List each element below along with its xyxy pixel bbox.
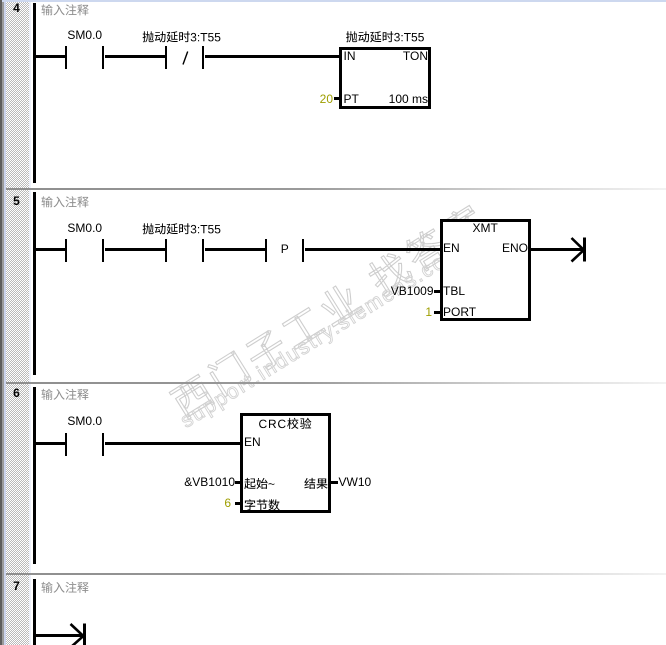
pin label ENO	[502, 242, 528, 254]
type label TON	[403, 50, 428, 62]
PT value 20	[320, 93, 333, 105]
contact SM0.0 bars	[65, 46, 68, 69]
left window border	[0, 0, 2, 645]
contact T55 NC bars	[165, 46, 168, 69]
pin label TBL	[443, 285, 465, 297]
wire: rail stub (network 7)	[36, 634, 83, 637]
PT pin tick	[334, 97, 340, 100]
TBL pin tick	[434, 290, 440, 293]
left power rail network 4	[33, 3, 36, 183]
operand VB1009	[391, 285, 434, 297]
box title XMT	[473, 222, 498, 234]
network separator 4/5	[6, 188, 666, 190]
edge contact bars	[265, 239, 268, 262]
watermark: diagonal site watermark 西门子工业 找答案	[160, 64, 666, 429]
wire: NC contact to TON box	[205, 55, 340, 58]
byte count value 6	[224, 497, 231, 509]
wire	[205, 248, 265, 251]
network number 6	[13, 387, 20, 399]
network number 7	[13, 580, 20, 592]
label SM0.0	[67, 29, 102, 41]
instruction box CRC校验	[240, 413, 331, 513]
pin label PT	[344, 93, 359, 105]
pin label EN	[244, 436, 261, 448]
instruction box XMT	[440, 219, 532, 321]
wire: ENO to open arrow	[531, 248, 584, 251]
input pin tick	[235, 481, 241, 484]
edge contact letter P	[281, 243, 289, 255]
wire: SM0.0 to CRC box	[105, 442, 241, 445]
wire	[105, 248, 165, 251]
pin label IN	[344, 50, 356, 62]
wire: P contact to XMT box	[305, 248, 440, 251]
PORT value 1	[425, 306, 432, 318]
network number 5	[13, 195, 20, 207]
byte-count pin tick	[235, 502, 241, 505]
wire: SM0.0 to T55 contact	[105, 55, 165, 58]
pin label EN	[443, 242, 460, 254]
operand &VB1010	[184, 476, 235, 488]
wire: rail to SM0.0 (network 6)	[36, 442, 65, 445]
network separator 5/6	[6, 382, 666, 384]
left power rail network 6	[33, 387, 36, 564]
label SM0.0	[67, 415, 102, 427]
timer box T55 TON	[339, 47, 431, 109]
contact SM0.0 bars	[65, 239, 68, 262]
contact SM0.0 bars	[65, 433, 68, 456]
left power rail network 5	[33, 192, 36, 375]
network-number gutter (dithered)	[6, 0, 29, 645]
pin label PORT	[443, 306, 476, 318]
wire: rail to SM0.0 (network 5)	[36, 248, 65, 251]
PORT pin tick	[434, 311, 440, 314]
time base label 100 ms	[389, 93, 428, 105]
network separator 6/7	[6, 573, 666, 575]
left power rail network 7	[33, 579, 36, 645]
watermark: diagonal site URL support.industry.siemens.com/cs	[177, 96, 666, 433]
network number 4	[13, 2, 20, 14]
top edge highlight	[2, 0, 666, 2]
wire: rail to contact SM0.0 (network 4)	[36, 55, 65, 58]
label SM0.0	[67, 222, 102, 234]
contact T55 bars	[165, 239, 168, 262]
operand VW10	[339, 476, 372, 488]
output pin tick	[331, 481, 338, 484]
